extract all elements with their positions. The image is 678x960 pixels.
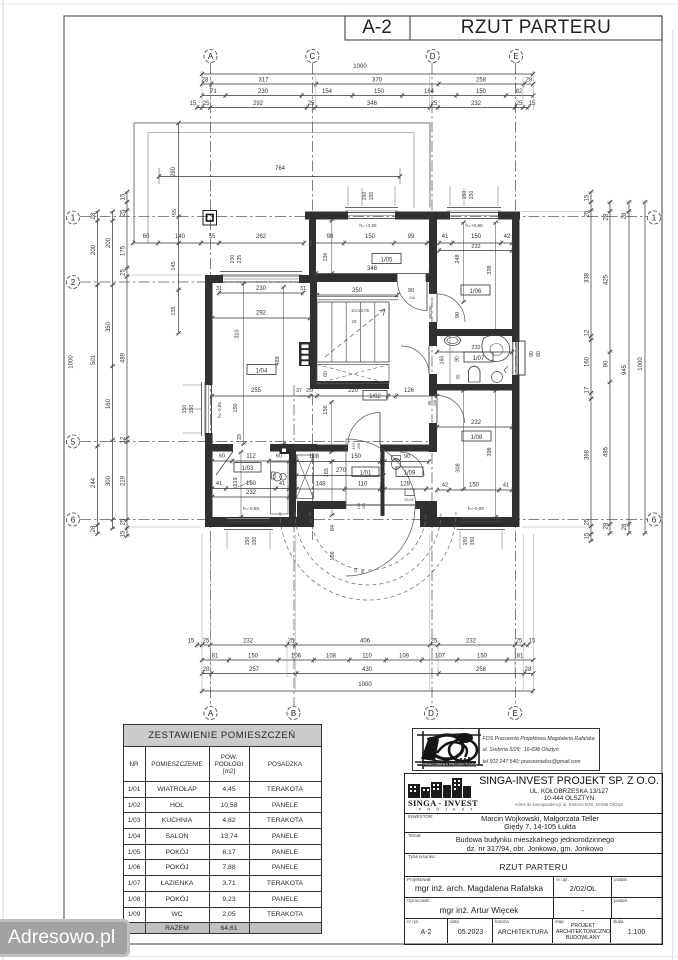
svg-text:25: 25 xyxy=(585,518,591,525)
svg-text:h=+0,86: h=+0,86 xyxy=(465,223,483,229)
svg-text:150: 150 xyxy=(233,403,239,412)
svg-text:489: 489 xyxy=(121,352,127,363)
svg-text:764: 764 xyxy=(275,166,286,172)
svg-text:1/04: 1/04 xyxy=(256,369,268,375)
svg-text:15: 15 xyxy=(585,532,591,539)
svg-text:150: 150 xyxy=(463,537,469,546)
svg-text:135: 135 xyxy=(171,306,177,315)
svg-text:154: 154 xyxy=(322,89,333,95)
svg-text:90: 90 xyxy=(604,360,610,367)
svg-text:145: 145 xyxy=(171,261,177,270)
svg-text:230: 230 xyxy=(230,255,236,264)
svg-text:28: 28 xyxy=(604,213,610,220)
svg-text:15: 15 xyxy=(529,101,536,107)
svg-text:150: 150 xyxy=(369,192,375,201)
svg-text:25: 25 xyxy=(288,639,295,645)
svg-text:B: B xyxy=(291,709,296,718)
svg-text:60: 60 xyxy=(276,454,282,460)
svg-text:945: 945 xyxy=(622,364,628,375)
svg-text:25: 25 xyxy=(203,639,210,645)
svg-text:140: 140 xyxy=(175,234,186,240)
svg-text:338: 338 xyxy=(585,272,591,283)
svg-text:398: 398 xyxy=(585,449,591,460)
svg-text:RZUT PARTERU: RZUT PARTERU xyxy=(461,17,612,38)
svg-text:15: 15 xyxy=(188,639,195,645)
svg-text:262: 262 xyxy=(256,234,267,240)
svg-text:98: 98 xyxy=(327,234,334,240)
svg-text:150: 150 xyxy=(470,537,476,546)
svg-text:81: 81 xyxy=(517,654,524,660)
svg-text:350: 350 xyxy=(106,321,112,332)
svg-text:160: 160 xyxy=(246,481,257,487)
svg-text:232: 232 xyxy=(471,420,482,426)
svg-text:41: 41 xyxy=(279,481,285,487)
svg-text:D: D xyxy=(428,709,434,718)
svg-text:346: 346 xyxy=(367,266,378,272)
svg-text:60: 60 xyxy=(143,234,150,240)
svg-text:PRACOWNIA PROJEKTOWA: PRACOWNIA PROJEKTOWA xyxy=(423,762,477,767)
svg-text:55: 55 xyxy=(209,234,216,240)
svg-text:28: 28 xyxy=(526,78,533,84)
svg-text:219: 219 xyxy=(121,475,127,486)
svg-text:42: 42 xyxy=(442,483,448,489)
svg-text:156: 156 xyxy=(330,551,336,560)
svg-text:25: 25 xyxy=(121,518,127,525)
svg-text:28: 28 xyxy=(91,212,97,219)
svg-text:42: 42 xyxy=(504,234,511,240)
svg-text:232: 232 xyxy=(466,639,477,645)
svg-text:1: 1 xyxy=(71,213,76,222)
svg-text:2: 2 xyxy=(71,278,76,287)
svg-text:28: 28 xyxy=(352,319,357,324)
svg-text:81: 81 xyxy=(212,654,219,660)
svg-text:160: 160 xyxy=(440,356,446,365)
svg-text:41: 41 xyxy=(216,481,222,487)
svg-text:206: 206 xyxy=(409,296,415,300)
svg-text:250: 250 xyxy=(352,288,363,294)
svg-text:310: 310 xyxy=(234,329,240,338)
svg-text:370: 370 xyxy=(372,78,383,84)
svg-text:317: 317 xyxy=(258,78,269,84)
svg-text:A: A xyxy=(208,52,214,61)
svg-text:P R O J E K T: P R O J E K T xyxy=(419,808,475,812)
svg-text:150: 150 xyxy=(374,89,385,95)
svg-text:C: C xyxy=(310,52,316,61)
svg-text:55: 55 xyxy=(172,209,178,215)
svg-text:338: 338 xyxy=(487,265,493,274)
svg-text:150: 150 xyxy=(182,405,188,414)
svg-text:160: 160 xyxy=(106,398,112,409)
svg-text:1/07: 1/07 xyxy=(473,356,485,362)
svg-text:148: 148 xyxy=(316,482,327,488)
svg-text:230: 230 xyxy=(258,89,269,95)
svg-text:41: 41 xyxy=(442,234,449,240)
svg-text:82: 82 xyxy=(516,89,523,95)
svg-text:150: 150 xyxy=(245,537,251,546)
svg-text:248: 248 xyxy=(455,254,461,263)
svg-text:485: 485 xyxy=(604,446,610,457)
svg-text:80: 80 xyxy=(536,351,542,357)
svg-text:28: 28 xyxy=(203,667,210,673)
svg-text:15: 15 xyxy=(121,193,127,200)
svg-text:25: 25 xyxy=(121,209,127,216)
svg-text:E: E xyxy=(513,52,518,61)
svg-text:1000: 1000 xyxy=(358,682,372,688)
svg-text:150: 150 xyxy=(189,405,195,414)
svg-text:1/05: 1/05 xyxy=(381,258,393,264)
svg-text:200: 200 xyxy=(106,237,112,248)
svg-text:6: 6 xyxy=(71,515,76,524)
svg-text:200: 200 xyxy=(91,244,97,255)
svg-text:150: 150 xyxy=(469,191,475,200)
svg-text:12: 12 xyxy=(585,329,591,336)
svg-text:35: 35 xyxy=(360,569,365,574)
svg-text:1/09: 1/09 xyxy=(404,471,416,477)
svg-text:102: 102 xyxy=(356,503,361,510)
svg-text:232: 232 xyxy=(243,639,254,645)
svg-text:346: 346 xyxy=(367,101,378,107)
svg-text:1/02: 1/02 xyxy=(369,394,381,400)
svg-text:15: 15 xyxy=(529,639,536,645)
svg-text:15: 15 xyxy=(190,101,197,107)
svg-text:1000: 1000 xyxy=(353,64,367,70)
svg-text:236: 236 xyxy=(323,253,329,262)
svg-text:206: 206 xyxy=(432,400,437,406)
svg-text:1/03: 1/03 xyxy=(242,466,254,472)
svg-text:28: 28 xyxy=(622,212,628,219)
svg-text:25: 25 xyxy=(308,101,315,107)
svg-text:6: 6 xyxy=(652,515,657,524)
svg-text:232: 232 xyxy=(471,345,480,351)
svg-text:99: 99 xyxy=(408,234,415,240)
svg-text:150: 150 xyxy=(476,89,487,95)
svg-text:300: 300 xyxy=(106,475,112,486)
svg-text:A: A xyxy=(208,709,214,718)
svg-text:SINGA - INVEST: SINGA - INVEST xyxy=(408,798,478,808)
svg-text:150: 150 xyxy=(252,537,258,546)
svg-text:257: 257 xyxy=(249,667,260,673)
svg-text:107: 107 xyxy=(435,654,446,660)
svg-text:244: 244 xyxy=(91,477,97,488)
svg-text:37: 37 xyxy=(296,388,302,394)
svg-text:29: 29 xyxy=(237,434,243,440)
svg-text:12: 12 xyxy=(379,454,385,460)
svg-text:220: 220 xyxy=(348,388,359,394)
svg-text:90: 90 xyxy=(529,351,535,357)
svg-text:16x18,06: 16x18,06 xyxy=(351,308,370,313)
svg-text:270: 270 xyxy=(336,468,347,474)
svg-text:489: 489 xyxy=(275,356,281,365)
svg-text:205: 205 xyxy=(362,503,366,509)
svg-text:150: 150 xyxy=(362,192,368,201)
svg-text:126: 126 xyxy=(404,388,415,394)
svg-text:150: 150 xyxy=(351,454,362,460)
svg-text:156: 156 xyxy=(323,405,329,414)
svg-text:129: 129 xyxy=(400,482,411,488)
svg-text:80/206: 80/206 xyxy=(428,305,433,319)
svg-text:1: 1 xyxy=(652,213,657,222)
svg-text:255: 255 xyxy=(251,388,262,394)
svg-text:232: 232 xyxy=(471,244,480,250)
svg-text:165: 165 xyxy=(324,468,330,477)
svg-text:12: 12 xyxy=(121,436,127,443)
svg-text:1000: 1000 xyxy=(69,355,75,369)
svg-text:60: 60 xyxy=(219,454,225,460)
svg-text:150: 150 xyxy=(462,191,468,200)
svg-text:232: 232 xyxy=(471,101,482,107)
svg-text:90: 90 xyxy=(455,356,461,362)
svg-text:h=-0,85: h=-0,85 xyxy=(243,506,260,512)
svg-text:h=-0,85: h=-0,85 xyxy=(468,506,485,512)
svg-text:D: D xyxy=(430,52,436,61)
svg-text:398: 398 xyxy=(487,447,493,456)
svg-text:406: 406 xyxy=(360,639,371,645)
svg-text:175: 175 xyxy=(121,245,127,256)
svg-text:112: 112 xyxy=(246,454,256,460)
svg-text:150: 150 xyxy=(477,654,488,660)
svg-text:84: 84 xyxy=(330,525,336,531)
svg-text:232: 232 xyxy=(246,490,257,496)
svg-text:292: 292 xyxy=(256,311,267,317)
svg-text:258: 258 xyxy=(476,667,487,673)
svg-text:90: 90 xyxy=(408,288,414,294)
svg-text:290: 290 xyxy=(171,166,177,177)
svg-text:1/01: 1/01 xyxy=(360,471,372,477)
svg-text:90: 90 xyxy=(404,454,410,460)
svg-text:109: 109 xyxy=(399,654,410,660)
svg-text:35: 35 xyxy=(455,374,461,380)
svg-text:5: 5 xyxy=(71,437,76,446)
svg-text:102: 102 xyxy=(351,443,356,450)
svg-text:258: 258 xyxy=(476,78,487,84)
svg-text:17: 17 xyxy=(585,386,591,393)
svg-text:25: 25 xyxy=(516,101,523,107)
svg-text:25: 25 xyxy=(431,639,438,645)
svg-text:292: 292 xyxy=(253,101,264,107)
svg-text:25: 25 xyxy=(516,639,523,645)
svg-text:h=+3,95: h=+3,95 xyxy=(359,223,377,229)
svg-text:106: 106 xyxy=(291,654,302,660)
svg-text:219: 219 xyxy=(233,477,239,486)
svg-text:28: 28 xyxy=(202,78,209,84)
svg-text:150: 150 xyxy=(469,483,480,489)
svg-text:230: 230 xyxy=(256,286,267,292)
svg-text:12: 12 xyxy=(379,481,385,487)
svg-text:108: 108 xyxy=(326,654,337,660)
svg-text:31: 31 xyxy=(216,286,222,292)
svg-text:160: 160 xyxy=(585,356,591,367)
svg-text:41: 41 xyxy=(503,483,509,489)
svg-text:h=-0,85: h=-0,85 xyxy=(217,402,223,419)
svg-text:25: 25 xyxy=(203,101,210,107)
svg-text:15: 15 xyxy=(353,567,358,572)
svg-text:90: 90 xyxy=(455,312,461,318)
svg-text:501: 501 xyxy=(91,354,97,365)
svg-text:28: 28 xyxy=(622,523,628,530)
svg-text:108: 108 xyxy=(309,454,320,460)
svg-text:308: 308 xyxy=(456,463,462,472)
svg-text:235: 235 xyxy=(237,255,243,264)
svg-text:28: 28 xyxy=(91,525,97,532)
svg-text:25: 25 xyxy=(306,388,312,394)
svg-text:A-2: A-2 xyxy=(362,17,392,38)
svg-text:31: 31 xyxy=(300,286,306,292)
svg-text:164: 164 xyxy=(424,89,435,95)
svg-text:60: 60 xyxy=(323,371,329,377)
svg-text:205: 205 xyxy=(357,443,361,449)
svg-text:15: 15 xyxy=(585,194,591,201)
svg-text:150: 150 xyxy=(471,234,482,240)
svg-text:425: 425 xyxy=(604,274,610,285)
svg-text:25: 25 xyxy=(585,210,591,217)
svg-text:1000: 1000 xyxy=(638,357,644,371)
svg-text:28: 28 xyxy=(525,667,532,673)
svg-text:430: 430 xyxy=(362,667,373,673)
svg-text:25: 25 xyxy=(431,101,438,107)
svg-text:110: 110 xyxy=(358,482,368,488)
svg-text:28: 28 xyxy=(604,522,610,529)
svg-text:15: 15 xyxy=(121,530,127,537)
svg-text:1/06: 1/06 xyxy=(470,289,482,295)
svg-text:71: 71 xyxy=(210,89,217,95)
svg-text:25: 25 xyxy=(121,269,127,276)
svg-text:110: 110 xyxy=(362,654,372,660)
svg-text:150: 150 xyxy=(248,654,259,660)
svg-text:E: E xyxy=(512,709,517,718)
svg-text:150: 150 xyxy=(365,234,376,240)
svg-text:50x35: 50x35 xyxy=(405,498,414,502)
svg-text:1/08: 1/08 xyxy=(471,435,483,441)
